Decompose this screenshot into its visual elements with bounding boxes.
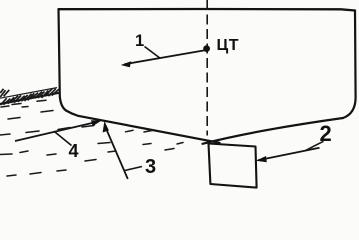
svg-text:1: 1 xyxy=(135,32,144,50)
water dashes xyxy=(0,100,183,176)
arrow 3 head xyxy=(103,121,109,133)
label 4 leader xyxy=(54,131,72,145)
hull outline xyxy=(59,9,356,144)
hull right side xyxy=(343,11,356,119)
hull bottom right line xyxy=(203,118,344,144)
waterline band (shore hatching) xyxy=(0,88,59,106)
center of gravity dot xyxy=(203,45,210,52)
waterline upper line xyxy=(0,88,57,99)
label 1 leader xyxy=(145,47,161,59)
svg-text:3: 3 xyxy=(145,156,156,178)
fin / rudder plate xyxy=(209,144,257,188)
centerline (dashed) xyxy=(206,0,208,136)
arrow 3 shaft xyxy=(106,128,128,179)
arrow 2 leader xyxy=(305,141,324,151)
arrow 2 head xyxy=(256,156,267,162)
svg-text:2: 2 xyxy=(320,121,332,146)
hull bottom left line xyxy=(66,111,220,143)
hull left side xyxy=(59,9,67,110)
waterline main line xyxy=(0,93,59,104)
svg-text:4: 4 xyxy=(69,141,79,161)
hull top deck edge xyxy=(59,9,356,11)
label 3 leader xyxy=(125,167,142,171)
arrow 4 shaft xyxy=(15,122,99,142)
arrow 1 shaft xyxy=(125,50,206,64)
arrow 2 shaft xyxy=(258,148,320,160)
arrow 4 head xyxy=(91,120,102,126)
hatch ticks xyxy=(0,90,5,97)
svg-text:ЦТ: ЦТ xyxy=(217,37,239,54)
arrow 1 head xyxy=(121,61,131,67)
